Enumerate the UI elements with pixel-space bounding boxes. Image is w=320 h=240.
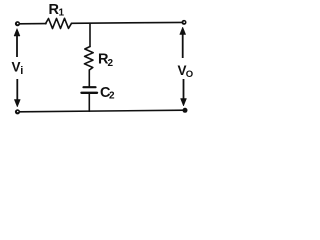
wire middle branch top stub (89, 23, 91, 46)
node top-right terminal (182, 20, 187, 25)
node top-left terminal (15, 21, 20, 26)
wire top-right segment (72, 21, 185, 24)
wire top-left segment (19, 23, 46, 25)
wire C2 to bottom stub (88, 94, 90, 111)
arrow down (Vo -) (181, 79, 187, 106)
svg-text:i: i (20, 65, 23, 77)
node bottom-right terminal (183, 108, 188, 113)
resistor R2 (84, 47, 93, 71)
arrow down (Vi -) (14, 79, 20, 107)
arrow up (Vo +) (180, 27, 186, 58)
svg-text:2: 2 (109, 91, 115, 102)
arrow up (Vi +) (14, 29, 20, 58)
wire bottom (19, 110, 185, 112)
svg-text:V: V (12, 60, 21, 75)
wire R2 to C2 stub (88, 70, 90, 86)
resistor R1 (46, 18, 72, 28)
svg-text:1: 1 (59, 8, 65, 19)
svg-text:2: 2 (108, 58, 114, 69)
svg-text:O: O (186, 69, 193, 80)
node bottom-left terminal (15, 109, 20, 114)
capacitor C2 top plate (84, 86, 96, 88)
capacitor C2 bottom plate (82, 92, 98, 94)
